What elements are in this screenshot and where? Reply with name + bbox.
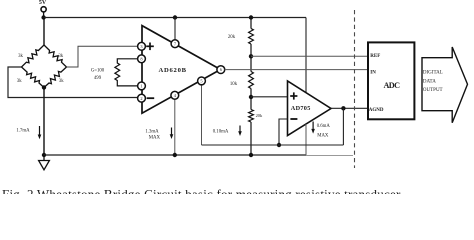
svg-text:3k: 3k xyxy=(59,79,64,84)
pin 2 xyxy=(138,94,146,102)
wire divider 2V to AD705 plus xyxy=(251,96,288,98)
wire R2 to node 2V xyxy=(250,89,252,98)
arrow current 1.7mA xyxy=(39,126,41,135)
wire R3 to ground rail xyxy=(250,122,252,155)
svg-text:5V: 5V xyxy=(39,0,47,6)
ground symbol xyxy=(43,155,45,161)
op-amp U1 AD620B body xyxy=(142,26,221,114)
svg-text:MAX: MAX xyxy=(317,133,329,138)
wire AD705 V- to ground rail xyxy=(305,124,307,155)
svg-text:3k: 3k xyxy=(58,54,63,59)
plus sign AD705 xyxy=(290,95,297,97)
minus sign AD620B xyxy=(147,97,155,99)
svg-text:3k: 3k xyxy=(17,79,22,84)
wire R1 to node REF xyxy=(250,44,252,56)
wire pin5 down to reference line xyxy=(201,85,203,145)
svg-text:IN: IN xyxy=(370,70,376,75)
wire top supply rail xyxy=(44,17,306,19)
wire node to R3 xyxy=(250,97,252,110)
pin 6 xyxy=(217,66,225,74)
pin 3 xyxy=(138,42,146,50)
svg-text:REF: REF xyxy=(370,54,380,59)
arrow current 0.10mA xyxy=(239,126,241,132)
svg-text:Fig. 2 Wheatstone Bridge Circu: Fig. 2 Wheatstone Bridge Circuit basic f… xyxy=(2,186,401,194)
node output junction xyxy=(341,106,345,110)
node rail junction pin7 xyxy=(173,15,177,19)
wire rail down to AD705 V+ xyxy=(305,18,307,93)
wire pin7 to rail xyxy=(174,18,176,41)
svg-text:G=100: G=100 xyxy=(91,68,105,73)
svg-text:499: 499 xyxy=(94,76,102,81)
block arrow digital output xyxy=(422,47,468,123)
node feedback junction xyxy=(277,143,281,147)
wire divider top xyxy=(250,18,252,29)
pin 8 xyxy=(138,55,146,63)
wire reference line to pin5 xyxy=(202,144,344,146)
resistor R3 20k xyxy=(249,110,254,123)
wire bridge left corner loop to IN- xyxy=(8,67,138,98)
svg-text:DIGITAL: DIGITAL xyxy=(423,70,443,75)
wire ground rail faint right segment xyxy=(306,155,353,157)
node divider REF xyxy=(249,54,253,58)
wire ground rail xyxy=(44,154,306,156)
svg-text:0.10mA: 0.10mA xyxy=(213,129,229,134)
svg-text:AD705: AD705 xyxy=(291,105,311,112)
node pin4 ground junction xyxy=(173,153,177,157)
pin 5 xyxy=(198,77,206,85)
node rail junction divider xyxy=(249,15,253,19)
svg-text:20k: 20k xyxy=(228,35,236,40)
svg-text:DATA: DATA xyxy=(423,79,436,84)
svg-text:OUTPUT: OUTPUT xyxy=(423,88,443,93)
svg-text:AD620B: AD620B xyxy=(159,67,187,74)
node ground rail left junction xyxy=(42,153,46,157)
resistor bridge top-right 3k xyxy=(44,45,67,67)
node divider ground junction xyxy=(249,153,253,157)
resistor R2 10k xyxy=(249,72,254,89)
wire REF to ADC xyxy=(251,55,368,57)
pin 7 xyxy=(171,40,179,48)
wire AD705 output to ADC AGND xyxy=(331,107,368,109)
wire feedback vertical xyxy=(342,108,344,145)
pin 1 xyxy=(138,82,146,90)
svg-text:ADC: ADC xyxy=(384,81,401,90)
boundary dashed line xyxy=(354,10,356,168)
arrow current 0.6mA xyxy=(312,122,314,130)
resistor R1 20k xyxy=(249,29,254,45)
svg-text:1.3mA: 1.3mA xyxy=(145,130,159,135)
wire AD620 output to ADC IN xyxy=(225,69,369,71)
node bridge bottom junction xyxy=(42,85,46,89)
wire node to R2 xyxy=(250,56,252,71)
plus sign AD620B xyxy=(146,45,154,47)
op-amp U2 AD705 body xyxy=(288,81,332,136)
terminal 5V xyxy=(41,7,46,12)
svg-text:AGND: AGND xyxy=(369,108,384,113)
svg-text:1.7mA: 1.7mA xyxy=(16,128,30,133)
svg-text:0.6mA: 0.6mA xyxy=(317,124,331,129)
resistor bridge bottom-right 3k xyxy=(44,67,67,88)
node supply junction xyxy=(41,15,45,19)
resistor RG 499 gain loop xyxy=(115,59,138,86)
svg-text:MAX: MAX xyxy=(149,135,161,140)
ADC U3 box xyxy=(368,42,414,119)
wire rail to bridge top xyxy=(43,18,45,46)
wire AD705 minus loop xyxy=(279,119,288,145)
minus sign AD705 xyxy=(290,118,297,120)
wire terminal to rail xyxy=(43,12,45,18)
svg-text:1: 1 xyxy=(140,84,142,89)
wire pin4 down to ground rail xyxy=(174,99,176,155)
resistor bridge bottom-left 3k xyxy=(22,67,45,88)
svg-text:10k: 10k xyxy=(230,82,238,87)
pin 4 xyxy=(171,91,179,99)
node divider 2V xyxy=(249,95,253,99)
svg-text:2: 2 xyxy=(140,96,142,101)
wire bridge bottom to ground rail xyxy=(43,88,45,156)
arrow current 1.3mA xyxy=(171,128,173,135)
wire bridge right corner to IN+ xyxy=(67,46,138,67)
resistor bridge top-left 3k xyxy=(22,45,45,67)
svg-text:3k: 3k xyxy=(18,54,23,59)
svg-text:20k: 20k xyxy=(256,113,263,118)
